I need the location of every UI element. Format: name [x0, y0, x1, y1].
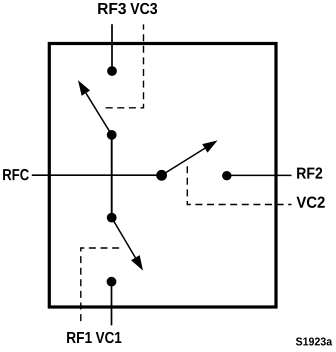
wire RFC: [32, 174, 162, 176]
node RF2 contact: [222, 171, 231, 180]
node pivot lower: [107, 213, 117, 223]
switch arm 3 (arrow up-left): [86, 93, 112, 135]
label RFC: [3, 169, 29, 180]
node RFC pole: [156, 170, 167, 181]
node pivot upper: [107, 130, 117, 140]
wire RF3 stub: [111, 24, 113, 71]
figure code S1923a: [296, 337, 332, 345]
node RF3 contact: [107, 66, 117, 76]
label VC3: [130, 3, 157, 14]
label VC1: [96, 332, 122, 343]
switch arm 2 (arrow up-right): [162, 148, 205, 175]
label VC2: [296, 197, 324, 208]
control line VC1 (dashed): [81, 248, 120, 325]
label RF3: [98, 3, 126, 14]
switch arm 1 (arrow down-right): [112, 218, 136, 258]
control line VC2 (dashed): [187, 165, 291, 205]
wire RF2: [227, 174, 292, 176]
switch body outline: [49, 44, 276, 308]
control line VC3 (dashed): [103, 24, 144, 107]
node RF1 contact: [107, 277, 117, 287]
wire RF1 stub: [111, 282, 113, 326]
label RF2: [297, 167, 322, 178]
label RF1: [67, 332, 92, 343]
wire pivot bus: [111, 135, 113, 218]
